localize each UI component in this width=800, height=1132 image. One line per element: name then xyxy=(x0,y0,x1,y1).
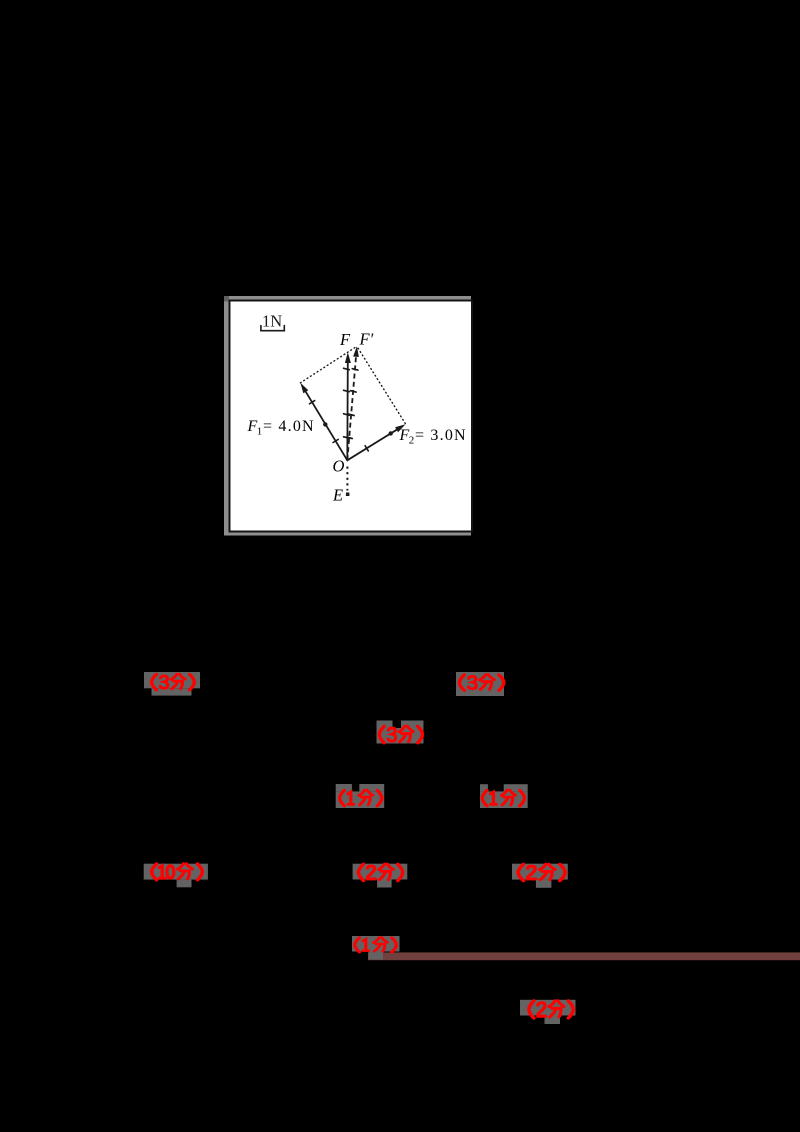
vector F2 shaft xyxy=(347,430,396,461)
annotation A9 gray shading xyxy=(352,936,400,960)
vector F' arrowhead xyxy=(353,346,359,357)
annotation A1 gray shading xyxy=(144,672,200,696)
diagram white box with black border xyxy=(230,301,473,532)
annotation A2 (3分) xyxy=(459,675,503,691)
annotation A8 gray shading xyxy=(512,864,568,888)
scale bracket xyxy=(261,326,284,331)
annotation A2 gray shading xyxy=(456,672,504,696)
svg-text:= 4.0N: = 4.0N xyxy=(263,418,315,435)
annotation A1 (3分) xyxy=(152,674,195,690)
annotation A8 (2分) xyxy=(518,864,565,881)
point E dot xyxy=(346,493,350,497)
svg-text:E: E xyxy=(332,486,343,505)
vector F arrowhead xyxy=(345,352,351,363)
svg-text:O: O xyxy=(333,457,345,476)
dotted parallelogram side left xyxy=(300,346,357,383)
F2 tick 1N xyxy=(365,446,368,451)
svg-text:= 3.0N: = 3.0N xyxy=(415,427,467,444)
vector F1 arrowhead xyxy=(300,383,308,394)
dotted parallelogram side right xyxy=(357,346,405,423)
F1 tick 3N xyxy=(310,401,315,404)
F ticks xyxy=(344,368,350,369)
annotation A9 (1分) xyxy=(355,938,397,953)
F' ticks xyxy=(352,369,358,370)
annotation A4 (1分) xyxy=(340,790,382,806)
svg-text:F′: F′ xyxy=(359,330,374,349)
vector F' dashed shaft xyxy=(347,357,356,461)
F2 dot xyxy=(389,431,393,435)
diagram picture gray backing xyxy=(224,296,471,536)
annotation A5 gray shading xyxy=(480,784,528,808)
vector F2 arrowhead xyxy=(395,424,405,432)
svg-text:F: F xyxy=(339,330,351,349)
svg-text:1N: 1N xyxy=(262,312,282,331)
vector F1 shaft xyxy=(306,392,348,461)
red answer underline xyxy=(368,952,800,960)
annotation A10 (2分) xyxy=(529,1001,573,1018)
picture backing corner xyxy=(224,296,229,302)
F1 dot xyxy=(323,422,327,426)
vector F shaft xyxy=(346,362,349,460)
svg-text:2: 2 xyxy=(409,435,415,447)
annotation A10 gray shading xyxy=(520,1000,576,1024)
annotation A3 gray shading xyxy=(377,721,424,744)
annotation A4 gray shading xyxy=(336,784,385,808)
F1 tick 1N xyxy=(333,439,338,442)
annotation A7 gray shading xyxy=(353,864,408,888)
annotation A3 (3分) xyxy=(379,726,422,743)
annotation A6 gray shading xyxy=(144,864,208,888)
annotation A6 (10分) xyxy=(152,864,203,880)
svg-text:1: 1 xyxy=(257,426,263,438)
annotation A7 (2分) xyxy=(358,864,402,881)
diagram contents group xyxy=(247,312,467,505)
annotation A5 (1分) xyxy=(482,790,524,806)
dotted line O to E xyxy=(346,467,348,491)
